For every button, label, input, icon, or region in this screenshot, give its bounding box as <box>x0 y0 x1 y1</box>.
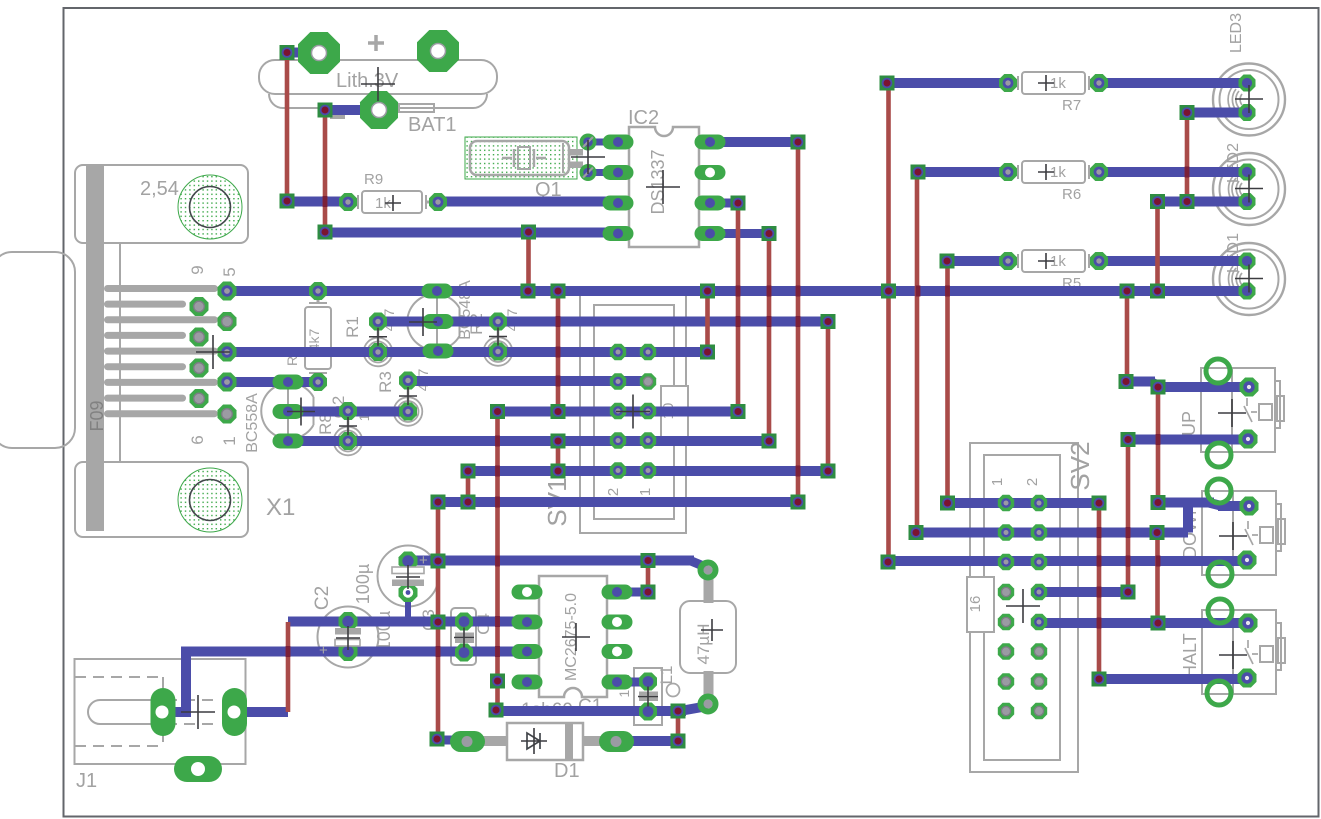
wire R7 row right <box>1099 78 1247 88</box>
capacitor C3 pads <box>455 613 473 631</box>
connector X1 mount hole top <box>178 175 242 239</box>
battery BAT1 outline <box>259 60 497 94</box>
svg-text:D1: D1 <box>554 760 580 782</box>
wire red x1127 upper <box>1125 291 1130 381</box>
wire red x798 <box>796 142 801 502</box>
power jack J1 outline <box>75 659 246 764</box>
resistor R5 body <box>1022 250 1085 272</box>
wire battery bottom <box>325 105 379 115</box>
wire via to D1 <box>437 736 458 745</box>
resistor R3 silk <box>398 401 419 422</box>
wire UP bottom <box>1128 435 1248 445</box>
svg-text:1: 1 <box>637 488 654 496</box>
svg-text:1: 1 <box>220 436 239 445</box>
wire R7 row left <box>887 78 1008 88</box>
svg-text:+: + <box>419 552 428 569</box>
crystal Q1 body <box>470 141 569 175</box>
diode D1 symbol <box>527 733 540 749</box>
svg-text:UP: UP <box>1179 411 1199 436</box>
svg-text:+: + <box>319 642 328 659</box>
resistor R6 body <box>1022 161 1085 183</box>
wire bus GND y291 <box>227 286 1247 296</box>
LED pads <box>1239 75 1256 92</box>
resistor R3 pads <box>399 372 417 390</box>
resistor R7 body <box>1022 72 1085 94</box>
connector X1 top flange <box>75 165 248 243</box>
svg-text:Lith.3V: Lith.3V <box>336 70 399 92</box>
resistor R8 pads <box>339 402 357 420</box>
wire red x468 <box>466 471 471 502</box>
wire HALT bottom <box>1099 674 1247 684</box>
wire IC1 out <box>617 588 648 597</box>
wire red x888 <box>886 83 891 562</box>
wire red x1158 mid <box>1156 387 1161 503</box>
regulator IC1 pads <box>512 585 543 600</box>
wire J1 left pad <box>163 707 191 717</box>
transistor Q2 outline BC558A <box>261 383 313 439</box>
wire R6 row left <box>918 167 1008 177</box>
wire red x738 <box>736 203 741 412</box>
svg-text:R6: R6 <box>1062 186 1081 203</box>
wire sv2 row4 <box>1039 587 1128 597</box>
capacitor C3 outline <box>451 608 476 665</box>
wire IC2 right row3 <box>710 199 738 208</box>
wire red x1157 low <box>1155 533 1160 624</box>
battery minus symbol <box>330 114 345 119</box>
resistor R4 body <box>305 307 331 369</box>
jack UP switch symbol <box>1244 398 1257 422</box>
svg-text:HALT: HALT <box>1180 633 1200 678</box>
wire y441 <box>288 436 769 446</box>
svg-text:DS1337: DS1337 <box>648 149 668 214</box>
wire J1 vertical <box>181 651 191 712</box>
LED LED2 outline <box>1213 153 1285 225</box>
wire R6 row right <box>1099 167 1247 177</box>
wire y621 <box>288 617 527 627</box>
svg-text:16: 16 <box>967 596 984 613</box>
svg-text:IC2: IC2 <box>628 107 659 129</box>
jack DOWN outline <box>1202 491 1276 575</box>
svg-text:J1: J1 <box>76 770 97 792</box>
svg-text:2,54: 2,54 <box>140 178 179 200</box>
svg-text:2: 2 <box>1024 478 1041 486</box>
SV1 notch box <box>661 386 688 437</box>
crystal Q1 symbol <box>502 149 546 167</box>
svg-text:6: 6 <box>188 435 207 444</box>
diode D1 pads <box>450 731 485 752</box>
inductor L1 body <box>680 601 736 673</box>
wire red x828 <box>826 322 831 472</box>
connector X1 back bar <box>86 165 104 531</box>
wire y471 <box>468 466 828 476</box>
resistor R2 silk <box>488 341 509 362</box>
wire red x325 <box>323 110 328 232</box>
wire battery top <box>287 48 319 58</box>
capacitor C5 outline <box>378 546 439 607</box>
capacitor C2 plates <box>335 628 361 635</box>
wire y232 <box>325 228 616 238</box>
wire y321 <box>378 317 828 327</box>
wire C5 stub <box>405 592 411 621</box>
svg-text:100µ: 100µ <box>353 564 373 604</box>
resistor R1 pads <box>369 313 387 331</box>
J1 dashed inner <box>75 677 163 746</box>
connector X1 mating-face outline <box>0 252 75 448</box>
jack HALT switch symbol <box>1245 640 1258 664</box>
capacitor C5 plates <box>392 567 424 574</box>
wire y651 <box>181 647 527 657</box>
wire R5 row left <box>947 256 1008 266</box>
LED LED3 outline <box>1213 64 1285 136</box>
svg-text:R1: R1 <box>343 316 362 338</box>
capacitor C5 pads <box>399 552 418 571</box>
wire red x1157 top <box>1155 202 1160 292</box>
svg-text:X1: X1 <box>266 494 295 521</box>
wire y560 <box>408 556 694 566</box>
diode D1 body <box>507 723 583 760</box>
transistor Q3 outline BC548A <box>407 294 459 350</box>
crystal Q1 leads <box>569 149 583 156</box>
wire red x438 <box>436 502 441 739</box>
svg-text:5: 5 <box>220 267 239 276</box>
wire LED2 cathode <box>1157 197 1247 207</box>
wire red x947 <box>945 261 950 503</box>
wire IC1 to C1 <box>617 678 648 687</box>
connector X1 bottom flange <box>75 462 248 537</box>
wire down-top <box>1158 498 1214 508</box>
wire R9 row left <box>287 197 348 207</box>
svg-text:BAT1: BAT1 <box>408 114 457 136</box>
wire y711 <box>496 706 686 716</box>
resistor R1 silk <box>368 342 389 363</box>
wire y352 <box>227 347 707 357</box>
svg-text:BC558A: BC558A <box>244 393 261 453</box>
svg-text:LED1: LED1 <box>1225 233 1242 273</box>
wire sv2 row3 to DOWN <box>888 556 1247 566</box>
jack HALT outline <box>1202 610 1276 694</box>
connector X1 pads <box>218 282 237 301</box>
jack DOWN pads and rings <box>1207 479 1231 503</box>
transistor Q3 pads <box>422 284 453 299</box>
resistor R5 pads <box>999 252 1017 270</box>
diode D1 leads <box>481 736 507 746</box>
wire D1 to via <box>616 736 678 746</box>
resistor R8 silk <box>338 431 359 452</box>
svg-text:9: 9 <box>188 265 207 274</box>
wire sv2 row5 to HALT <box>1039 618 1248 628</box>
wire red x497 <box>495 412 500 711</box>
wire sv2 row1 <box>947 498 1099 508</box>
wire red x528 <box>526 232 531 291</box>
op-amp IC2 body <box>629 127 699 247</box>
pin header SV1 pads <box>610 344 626 360</box>
wire Q1 stubs <box>588 139 612 146</box>
resistor R2 pads <box>489 313 507 331</box>
jack HALT pads and rings <box>1208 599 1232 623</box>
power jack J1 pads <box>151 688 176 736</box>
wire red x1128 lower <box>1126 440 1131 593</box>
wire J1 right pad <box>234 707 288 717</box>
wire LED3 cathode <box>1187 108 1247 118</box>
wire red x1187 <box>1185 113 1190 202</box>
wire red x1099 <box>1097 503 1102 679</box>
jack DOWN switch symbol <box>1245 521 1258 545</box>
wire IC2 right row4 <box>710 229 769 238</box>
wire UP top <box>1126 377 1155 387</box>
wire y411a <box>288 407 408 417</box>
jack UP outline <box>1201 368 1275 452</box>
jack UP pads and rings <box>1206 359 1230 383</box>
capacitor C3 plates <box>455 633 474 638</box>
wire y411b <box>498 407 738 417</box>
wire y502 <box>438 497 798 507</box>
regulator IC1 body <box>539 576 607 697</box>
wire red x707 <box>705 291 710 352</box>
resistor R9 body <box>362 191 422 213</box>
wire red x287 <box>285 52 290 201</box>
pin header SV1 outline <box>580 293 686 533</box>
battery BAT1 pads <box>298 32 340 74</box>
pin header SV2 pads <box>998 495 1014 511</box>
wire red x288 J1 <box>286 622 291 712</box>
capacitor C2 outline <box>318 607 379 668</box>
capacitor C1 outline <box>634 668 662 725</box>
svg-text:2: 2 <box>605 488 622 496</box>
svg-text:LED3: LED3 <box>1228 13 1245 53</box>
svg-text:1: 1 <box>989 478 1006 486</box>
connector X1 mount hole bottom <box>178 468 242 532</box>
resistor R9 pads <box>339 193 357 211</box>
pin header SV2 outline <box>970 443 1078 772</box>
transistor Q2 pads <box>273 375 304 390</box>
inductor L1 leads <box>704 577 714 603</box>
connector X1 pins <box>104 285 218 292</box>
resistor R4 pads <box>309 282 327 300</box>
svg-text:SV2: SV2 <box>1065 441 1095 490</box>
J1 barrel <box>88 700 148 724</box>
origin crosshairs layer <box>181 67 1263 754</box>
battery plus symbol <box>368 35 384 51</box>
capacitor C2 pads <box>339 612 358 631</box>
wire red x648 <box>646 561 651 593</box>
crystal Q1 pads <box>580 134 597 151</box>
vias <box>280 45 295 60</box>
layer crossings <box>916 286 921 297</box>
inductor L1 pads <box>701 563 716 578</box>
wire sv2 row2 <box>916 528 1188 538</box>
svg-text:C2: C2 <box>312 586 333 610</box>
wire red x769 <box>767 234 772 442</box>
wire red x917 <box>915 172 920 533</box>
svg-text:R9: R9 <box>364 171 383 188</box>
wire y381b <box>408 376 648 386</box>
wire R9 row right <box>438 197 616 207</box>
wire red x678 <box>676 711 681 741</box>
SV2 notch box <box>967 577 994 632</box>
svg-text:F09: F09 <box>87 400 107 431</box>
wire y382a <box>227 377 318 387</box>
wire R5 row right <box>1099 256 1247 266</box>
op-amp IC2 pads <box>603 135 634 150</box>
resistor R6 pads <box>999 163 1017 181</box>
svg-text:R7: R7 <box>1062 97 1081 114</box>
capacitor C1 plates <box>639 692 658 696</box>
wire IC2 right row1 <box>710 137 798 147</box>
resistor R7 pads <box>999 74 1017 92</box>
wire red x558 upper <box>556 291 561 412</box>
wire red x558 lower <box>556 441 561 471</box>
capacitor C1 pads <box>639 673 657 691</box>
svg-text:R3: R3 <box>376 371 395 393</box>
connector X1 body edge <box>119 243 121 462</box>
LED LED1 outline <box>1213 243 1285 315</box>
crystal Q1 keepout <box>465 137 577 179</box>
